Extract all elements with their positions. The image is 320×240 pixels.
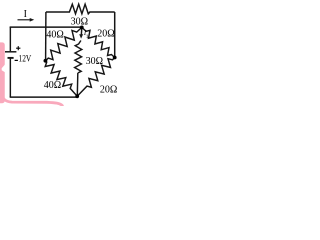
wire: left vertical from top-left corner to battery top plate — [9, 27, 11, 51]
wire: upper branch right leg, x=114.7 down to node C — [114, 12, 116, 58]
node C junction dot — [113, 56, 117, 60]
svg-text:I: I — [24, 9, 27, 20]
current arrow I (top left) — [18, 19, 31, 21]
resistor 40-ohm upper-left diagonal (T to L) — [45, 27, 81, 60]
svg-text:30Ω: 30Ω — [71, 17, 88, 28]
resistor 30-ohm middle vertical — [75, 41, 82, 74]
wire: left vertical from battery bottom plate to bottom wire — [9, 58, 11, 97]
wire: upper 30-ohm branch left leg, x=45.9 from branch down to node L (crosses top wire, no junction) — [45, 12, 47, 61]
battery 12V bottom plate (short, -) — [8, 57, 14, 59]
svg-text:40Ω: 40Ω — [46, 29, 63, 40]
wire: middle branch from 30-ohm down to node D — [76, 73, 79, 96]
wire: middle branch from node T down (current I1 arrow on it) — [80, 27, 83, 37]
svg-text:1: 1 — [86, 34, 89, 40]
battery 12V top plate (long, +) — [5, 51, 16, 53]
white notch in pink bar — [2, 64, 6, 73]
battery + sign — [16, 46, 20, 50]
node L junction dot — [44, 59, 48, 63]
resistor 30-ohm top (sawtooth on upper branch wire) — [46, 4, 115, 14]
pink highlight bar (left edge) — [0, 42, 5, 103]
resistor 40-ohm lower-left diagonal (L to D) — [45, 61, 77, 96]
node D junction dot — [75, 94, 79, 98]
resistor 20-ohm upper-right diagonal (T to C) — [82, 27, 115, 57]
pink rounded-rect outline (bottom annotation) — [2, 92, 63, 106]
battery - sign — [15, 59, 18, 61]
wire: top wire from top-left corner to node T — [10, 26, 82, 27]
svg-text:20Ω: 20Ω — [97, 29, 114, 40]
resistor 20-ohm lower-right diagonal (D to C) — [77, 58, 115, 97]
svg-text:40Ω: 40Ω — [44, 80, 61, 91]
current arrowhead I1 (middle branch) — [79, 34, 83, 38]
wire: bottom wire from bottom-left corner to node D — [10, 96, 78, 98]
svg-text:12V: 12V — [19, 53, 32, 63]
svg-text:20Ω: 20Ω — [100, 85, 117, 96]
node T junction dot — [80, 26, 84, 30]
svg-text:30Ω: 30Ω — [86, 56, 103, 67]
